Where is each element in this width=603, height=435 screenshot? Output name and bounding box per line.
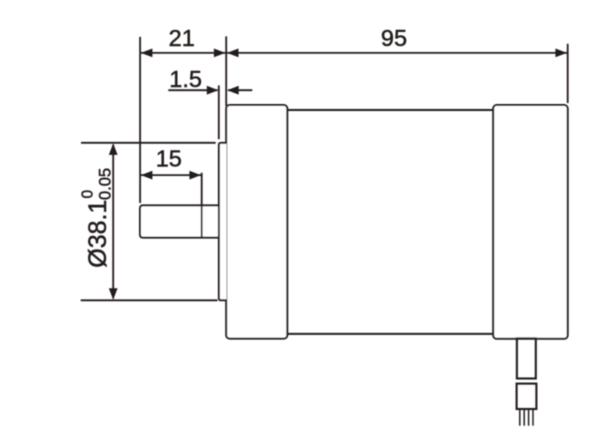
arrowhead 21 left xyxy=(141,49,153,58)
pilot boss (1.5mm) xyxy=(219,143,227,300)
front endcap (flange block) xyxy=(226,105,287,339)
motor body (middle section) xyxy=(287,110,494,334)
arrowhead dia38.1 bottom (points down) xyxy=(109,288,118,300)
extension line: boss bottom (dia 38.1) xyxy=(81,299,218,301)
extension line: boss left face (1.5 dim) xyxy=(218,85,220,139)
arrowhead 1.5 left (points right) xyxy=(207,86,219,95)
cable sleeve xyxy=(517,338,536,378)
wire 2 xyxy=(523,410,525,426)
wire 3 xyxy=(528,410,530,426)
svg-text:21: 21 xyxy=(169,25,195,51)
wire 1 xyxy=(519,410,521,426)
extension line: flange face (21/95 dim shared) xyxy=(225,36,227,106)
extension line: shaft tip (21 dim left) xyxy=(139,37,141,203)
svg-text:15: 15 xyxy=(156,146,182,172)
svg-text:Ø38.1: Ø38.1 xyxy=(84,200,112,268)
shaft xyxy=(140,205,220,237)
extension line: boss top (dia 38.1) xyxy=(81,142,216,144)
arrowhead 1.5 right (points left) xyxy=(227,86,239,95)
dimension line 21 xyxy=(141,52,225,54)
extension line: rear endcap right (95 dim) xyxy=(567,44,569,103)
svg-text:95: 95 xyxy=(381,25,407,51)
dimension line 15 xyxy=(141,174,201,176)
extension line: shaft step at 15mm xyxy=(201,173,203,239)
leader line 1.5 left xyxy=(168,89,217,91)
svg-text:0: 0 xyxy=(80,190,97,199)
rear endcap xyxy=(493,105,568,339)
wire 4 xyxy=(532,410,534,426)
arrowhead 95 right xyxy=(555,49,567,58)
leader line 1.5 right xyxy=(228,89,252,91)
arrowhead 21 right xyxy=(214,49,226,58)
svg-text:0.05: 0.05 xyxy=(97,168,115,200)
arrowhead 15 right xyxy=(189,171,201,180)
dimension line dia 38.1 xyxy=(112,145,114,299)
arrowhead 95 left xyxy=(227,49,239,58)
svg-text:1.5: 1.5 xyxy=(169,66,202,92)
arrowhead 15 left xyxy=(141,171,153,180)
cable connector block xyxy=(517,384,537,409)
arrowhead dia38.1 top (points up) xyxy=(109,143,118,155)
dimension line 95 xyxy=(227,52,567,54)
